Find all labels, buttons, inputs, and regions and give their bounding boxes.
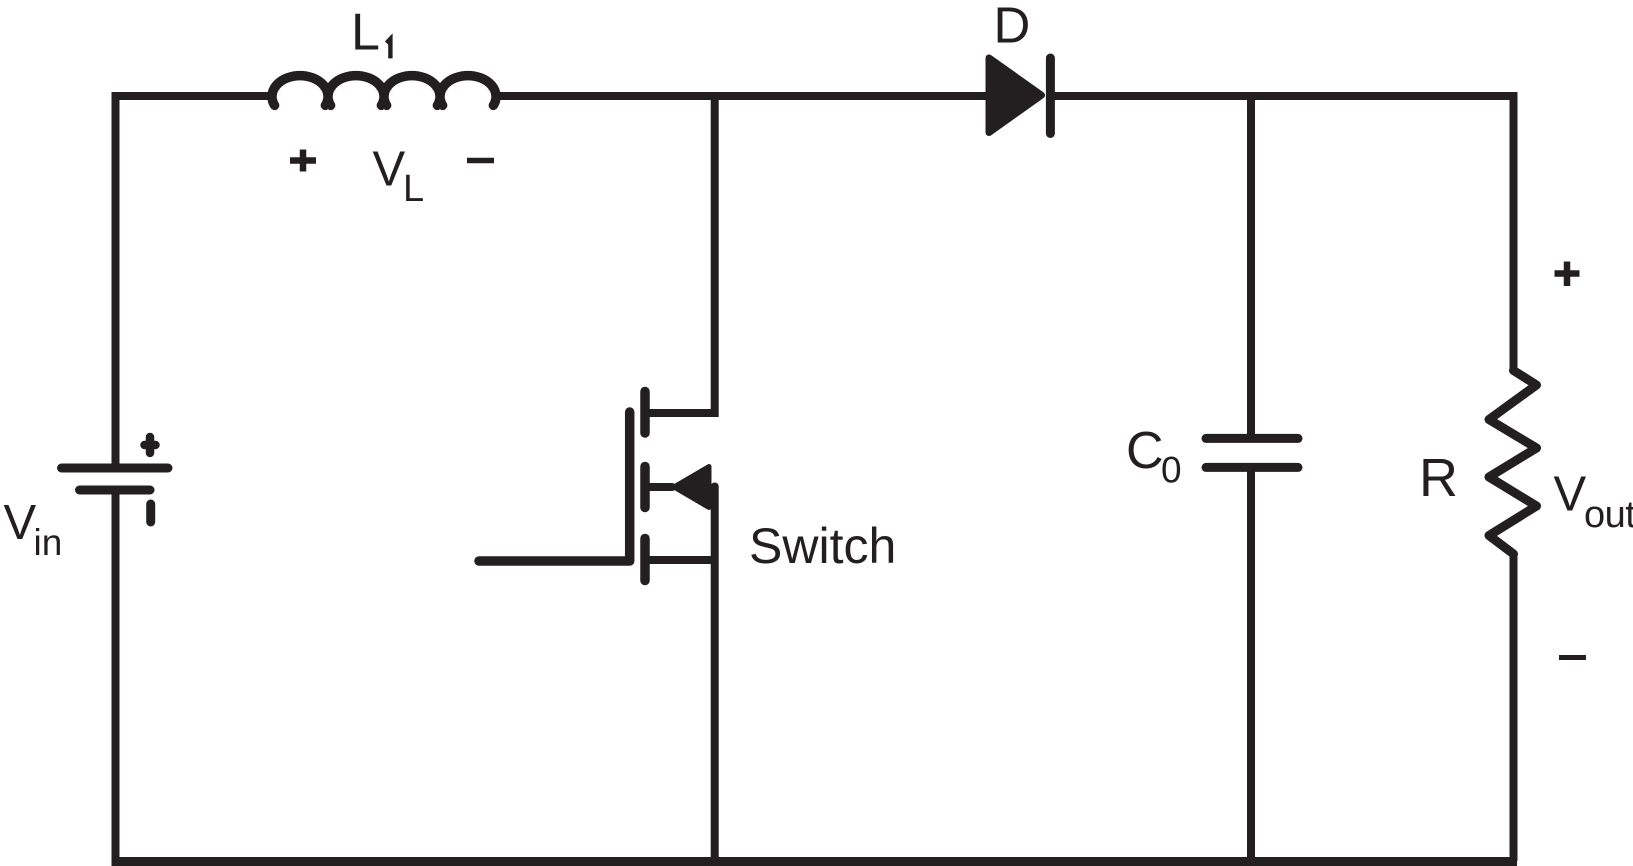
svg-text:V: V — [4, 496, 37, 550]
mosfet channel bar top — [640, 392, 650, 434]
capacitor bottom plate — [1206, 463, 1298, 472]
wire right branch upper (output node to R) — [1510, 92, 1518, 372]
diode triangle — [989, 58, 1042, 133]
mosfet channel bar middle — [640, 467, 650, 508]
transistor Q1 (MOSFET switch) — [479, 392, 715, 581]
wire top rail left segment (Vin+ to L1) — [116, 92, 277, 100]
plus sign for VL — [290, 150, 316, 172]
mosfet gate bar and gate lead — [479, 412, 630, 561]
svg-text:in: in — [34, 522, 63, 563]
wire left branch lower (Vin - terminal to bottom rail) — [112, 490, 120, 861]
svg-text:C: C — [1126, 422, 1164, 480]
wire capacitor branch lower — [1247, 471, 1255, 861]
label L1 subscript 1 (drawn) — [387, 39, 391, 59]
svg-text:V: V — [1554, 468, 1587, 522]
mosfet body-diode arrow lead — [645, 483, 672, 491]
resistor R — [1489, 371, 1537, 555]
svg-text:Switch: Switch — [749, 518, 896, 574]
svg-text:D: D — [994, 0, 1031, 54]
battery short plate — [80, 486, 151, 495]
wire top rail right segment (diode cathode to output node) — [1050, 92, 1513, 100]
svg-text:L: L — [403, 168, 424, 210]
battery long plate — [62, 464, 169, 473]
mosfet source lead — [645, 556, 715, 564]
wire top rail middle segment (L1 to diode anode) — [496, 92, 988, 100]
battery Vin — [62, 437, 169, 522]
capacitor top plate — [1206, 434, 1298, 443]
svg-text:L: L — [351, 4, 380, 62]
capacitor C0 — [1206, 438, 1298, 467]
wire switch drain branch (top rail down to MOSFET drain) — [645, 96, 715, 413]
svg-text:out: out — [1584, 494, 1633, 536]
minus sign for VL — [467, 158, 494, 164]
inductor L1 — [272, 76, 496, 106]
svg-text:0: 0 — [1161, 450, 1182, 491]
diode cathode bar — [1046, 58, 1055, 134]
plus sign for Vout — [1555, 262, 1580, 287]
diode D — [989, 58, 1050, 134]
battery plus sign — [145, 437, 156, 453]
mosfet body-diode arrow head — [674, 467, 709, 508]
mosfet channel bar bottom — [640, 539, 650, 581]
svg-text:R: R — [1419, 448, 1458, 508]
wire left branch upper (Vin + terminal) — [112, 92, 120, 464]
wire bottom rail — [112, 857, 1518, 866]
battery minus tick — [146, 504, 155, 522]
wire switch source branch (MOSFET to bottom rail) — [711, 487, 719, 862]
svg-text:V: V — [373, 143, 406, 197]
wire capacitor branch upper — [1247, 92, 1255, 434]
minus sign for Vout — [1559, 655, 1586, 660]
wire right branch lower (R to bottom rail) — [1510, 553, 1518, 861]
